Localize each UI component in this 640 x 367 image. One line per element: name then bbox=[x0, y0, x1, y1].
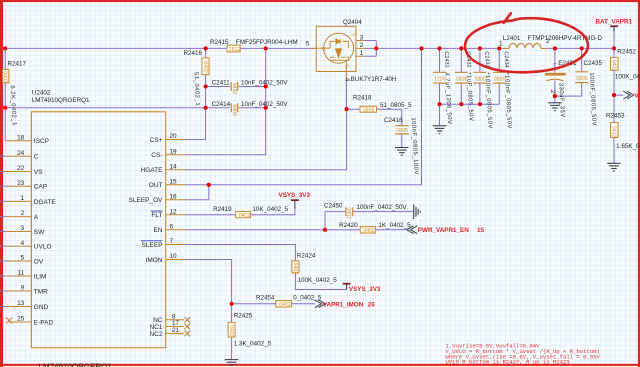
svg-text:9: 9 bbox=[21, 285, 25, 292]
svg-text:OUT: OUT bbox=[149, 182, 163, 189]
svg-text:R2416: R2416 bbox=[184, 50, 203, 57]
resistor R2416 bbox=[202, 58, 209, 75]
power tap VSYS_3V3 (R2424) bbox=[343, 283, 351, 285]
junction C2431 bottom bbox=[437, 102, 441, 106]
junction C2432 bottom bbox=[459, 102, 463, 106]
svg-text:BUK7Y1R7-40H: BUK7Y1R7-40H bbox=[351, 76, 397, 83]
wire R2454 bbox=[232, 303, 315, 305]
svg-text:4: 4 bbox=[21, 240, 25, 247]
ground R2453 bbox=[607, 163, 621, 171]
svg-text:0402: 0402 bbox=[279, 302, 291, 308]
U2402 right pin names bbox=[129, 137, 164, 338]
resistor R2425 bbox=[228, 322, 235, 337]
wire IMON bbox=[185, 260, 231, 304]
capacitor E2401 polarized bbox=[545, 73, 566, 76]
svg-text:2512: 2512 bbox=[229, 47, 241, 53]
svg-text:L2401: L2401 bbox=[503, 35, 521, 42]
resistor R2452 bbox=[611, 57, 619, 70]
svg-text:20: 20 bbox=[170, 133, 178, 140]
junction C2411 left bbox=[204, 84, 208, 88]
IC U2402 body bbox=[31, 112, 165, 348]
svg-text:10K_0402_5: 10K_0402_5 bbox=[252, 206, 288, 213]
wire C2450 branch bbox=[325, 212, 414, 230]
junction R2452/R2453 node bbox=[612, 93, 616, 97]
svg-text:6: 6 bbox=[170, 223, 174, 230]
wire C2432 riser bbox=[460, 48, 462, 104]
resistor R2453 bbox=[611, 123, 619, 138]
junction C2431 top bbox=[437, 46, 441, 50]
svg-text:7: 7 bbox=[170, 238, 174, 245]
transistor Q2404 body bbox=[316, 26, 356, 71]
svg-text:1.3K_0402_5: 1.3K_0402_5 bbox=[234, 340, 272, 347]
svg-text:R2454: R2454 bbox=[256, 295, 275, 302]
junction Q2404 gate bbox=[345, 107, 349, 111]
svg-text:BAT_VAPR1: BAT_VAPR1 bbox=[596, 18, 633, 25]
svg-text:R2418: R2418 bbox=[353, 94, 372, 101]
resistor R2424 bbox=[292, 261, 299, 273]
svg-text:0805: 0805 bbox=[576, 76, 588, 82]
Q2404 internals bbox=[316, 47, 330, 49]
svg-text:DGATE: DGATE bbox=[34, 199, 57, 206]
svg-text:2: 2 bbox=[549, 90, 556, 94]
junction CS- tap bbox=[264, 46, 268, 50]
svg-text:10: 10 bbox=[170, 253, 178, 260]
svg-text:0402: 0402 bbox=[202, 61, 208, 73]
svg-text:LM74910QRGERQ1: LM74910QRGERQ1 bbox=[32, 97, 90, 104]
off-page VAPR1 sense bbox=[623, 91, 633, 99]
svg-text:GND: GND bbox=[34, 304, 49, 311]
svg-text:ILIM: ILIM bbox=[34, 273, 47, 280]
ground C2450 sideways bbox=[414, 204, 421, 219]
wire CS- bbox=[185, 48, 265, 154]
junction EN/C2450 bbox=[323, 228, 327, 232]
junction R2416 top bbox=[204, 46, 208, 50]
U2402 pin stubs left bbox=[6, 140, 186, 334]
svg-text:0402: 0402 bbox=[610, 126, 616, 138]
svg-text:3: 3 bbox=[360, 34, 364, 41]
svg-text:12: 12 bbox=[170, 208, 178, 215]
resistor R2415 shunt bbox=[227, 45, 240, 52]
svg-text:SLEEP_OV: SLEEP_OV bbox=[129, 197, 164, 204]
svg-text:R2452: R2452 bbox=[617, 49, 636, 56]
svg-text:C2434: C2434 bbox=[503, 51, 510, 68]
svg-text:OV: OV bbox=[34, 258, 44, 265]
svg-text:0402: 0402 bbox=[231, 104, 237, 116]
svg-text:0402: 0402 bbox=[231, 83, 237, 95]
svg-text:0402: 0402 bbox=[228, 325, 234, 337]
junction C2433 top bbox=[478, 46, 482, 50]
off-page VAPR1_IMON bbox=[315, 300, 325, 308]
svg-text:0402: 0402 bbox=[363, 228, 375, 234]
annotation ellipse bbox=[465, 13, 588, 72]
svg-text:1.65K_0402_1: 1.65K_0402_1 bbox=[616, 143, 640, 150]
svg-text:15: 15 bbox=[477, 227, 485, 234]
wire C2435 bbox=[555, 48, 582, 96]
svg-text:D: D bbox=[320, 47, 326, 51]
svg-text:VS: VS bbox=[34, 169, 43, 176]
ground R2425 bbox=[225, 360, 239, 367]
wire Q2404 source pins bbox=[365, 41, 376, 57]
junction C2434 top bbox=[497, 46, 501, 50]
svg-text:0805: 0805 bbox=[396, 128, 408, 134]
wire gate stub bbox=[345, 78, 347, 110]
wire C2431 riser bbox=[439, 48, 441, 104]
svg-text:G: G bbox=[343, 64, 349, 68]
junction C2433 bottom bbox=[478, 102, 482, 106]
svg-text:UVLO: UVLO bbox=[34, 244, 52, 251]
ground cap bank bbox=[433, 126, 447, 134]
wire BAT column bbox=[614, 30, 623, 163]
svg-text:C2414: C2414 bbox=[212, 101, 231, 108]
wire C2414 right bbox=[239, 107, 266, 109]
svg-text:R2417: R2417 bbox=[8, 61, 27, 68]
svg-text:1: 1 bbox=[360, 50, 364, 57]
off-page PWR_VAPR1_EN bbox=[407, 226, 417, 234]
svg-text:SW: SW bbox=[34, 229, 45, 236]
junction C2411 right bbox=[264, 84, 268, 88]
svg-text:1K_0402_5: 1K_0402_5 bbox=[378, 222, 411, 229]
svg-text:CS+: CS+ bbox=[150, 137, 163, 144]
wire node ISCP horizontal bbox=[3, 107, 230, 109]
capacitor C2432 bbox=[455, 72, 468, 83]
svg-text:C: C bbox=[34, 154, 39, 161]
svg-text:IMON: IMON bbox=[146, 257, 163, 264]
junction OUT riser bbox=[419, 46, 423, 50]
power tap VSYS_3V3 (R2419) bbox=[291, 199, 299, 201]
svg-text:51_0805_5: 51_0805_5 bbox=[380, 102, 412, 109]
svg-text:18: 18 bbox=[17, 134, 25, 141]
wire caps ground rail bbox=[440, 104, 500, 126]
svg-text:15: 15 bbox=[170, 178, 178, 185]
svg-text:0402: 0402 bbox=[346, 207, 352, 219]
wire FLT bbox=[185, 208, 295, 215]
ground E2401 bbox=[548, 103, 562, 111]
svg-text:FLT: FLT bbox=[151, 212, 162, 219]
svg-text:R2419: R2419 bbox=[213, 206, 232, 213]
capacitor C2416 bbox=[395, 126, 409, 134]
svg-text:25: 25 bbox=[17, 316, 25, 323]
svg-text:A: A bbox=[34, 214, 39, 221]
wire C2411 bbox=[206, 86, 266, 88]
wire ISCP riser bbox=[4, 108, 6, 141]
svg-text:NC2: NC2 bbox=[149, 331, 162, 338]
svg-text:2: 2 bbox=[21, 210, 25, 217]
capacitor C2450 bbox=[346, 207, 353, 216]
capacitor C2433 bbox=[473, 72, 486, 83]
svg-text:23: 23 bbox=[17, 180, 25, 187]
junction BAT_VAPR1 rail bbox=[612, 46, 616, 50]
junction E2401 bottom bbox=[553, 94, 557, 98]
U2402 right pin numbers bbox=[170, 133, 180, 334]
capacitor C2435 bbox=[575, 72, 588, 83]
svg-text:VAPR1_IMON: VAPR1_IMON bbox=[323, 301, 364, 308]
junction IMON node bbox=[230, 302, 234, 306]
wire E2401 bbox=[554, 48, 556, 102]
svg-text:5: 5 bbox=[21, 255, 25, 262]
svg-text:24: 24 bbox=[17, 150, 25, 157]
capacitor C2411 bbox=[231, 82, 238, 91]
svg-text:R2425: R2425 bbox=[234, 313, 253, 320]
svg-text:0402: 0402 bbox=[2, 71, 8, 83]
wire R2417 vertical bbox=[4, 48, 6, 107]
svg-text:LM74910QRGERQ1: LM74910QRGERQ1 bbox=[39, 363, 113, 367]
capacitor C2431 bbox=[433, 72, 446, 83]
resistor R2419 bbox=[236, 211, 251, 217]
wire OUT bbox=[185, 48, 421, 184]
wire R2418 bbox=[347, 109, 402, 147]
svg-text:100nF_0402_50V: 100nF_0402_50V bbox=[357, 204, 408, 211]
junction C2414 right bbox=[264, 106, 268, 110]
no-connect X marks bbox=[6, 317, 190, 336]
svg-text:100K_0402_5: 100K_0402_5 bbox=[298, 277, 338, 284]
wire CS+ bbox=[185, 48, 205, 139]
svg-text:FTMP1206HPV-4RTMG-D: FTMP1206HPV-4RTMG-D bbox=[528, 35, 603, 42]
svg-text:R2415: R2415 bbox=[210, 39, 229, 46]
svg-text:0402: 0402 bbox=[239, 213, 251, 219]
svg-text:19: 19 bbox=[170, 148, 178, 155]
svg-text:14: 14 bbox=[170, 163, 178, 170]
junction C2435 top bbox=[580, 46, 584, 50]
svg-text:VSYS_3V3: VSYS_3V3 bbox=[279, 192, 311, 199]
junction R2417 bottom bbox=[3, 106, 7, 110]
pin name overlines FLT SLEEP bbox=[141, 211, 162, 241]
svg-text:C2431: C2431 bbox=[443, 51, 450, 68]
U2402 left pin numbers bbox=[17, 134, 25, 322]
wire C2434 riser bbox=[498, 48, 500, 104]
svg-text:100K_0402_1: 100K_0402_1 bbox=[615, 74, 640, 81]
U2402 left pin names bbox=[34, 138, 57, 326]
svg-text:13: 13 bbox=[17, 300, 25, 307]
inductor L2401 bbox=[503, 47, 547, 49]
svg-text:VSYS_3V3: VSYS_3V3 bbox=[349, 286, 381, 293]
svg-text:UVLO R bottom is R2427, R up i: UVLO R bottom is R2427, R up is R2423 bbox=[446, 359, 570, 366]
svg-text:EN: EN bbox=[153, 227, 162, 234]
wire C2433 riser bbox=[479, 48, 481, 104]
svg-text:U2402: U2402 bbox=[32, 90, 51, 97]
svg-text:0402: 0402 bbox=[610, 60, 616, 72]
resistor R2418 bbox=[360, 106, 377, 112]
capacitor C2434 bbox=[493, 72, 506, 83]
resistor R2454 bbox=[276, 301, 292, 307]
svg-text:17: 17 bbox=[172, 320, 180, 327]
svg-text:C2411: C2411 bbox=[212, 79, 231, 86]
capacitor C2414 bbox=[231, 103, 238, 112]
junction C2432 top bbox=[459, 46, 463, 50]
junction R2417 top bbox=[3, 46, 7, 50]
svg-text:C2450: C2450 bbox=[324, 202, 343, 209]
svg-text:CAP: CAP bbox=[34, 184, 47, 191]
wire SLEEP pullup bbox=[185, 245, 346, 290]
svg-text:21: 21 bbox=[172, 327, 180, 334]
svg-text:C2416: C2416 bbox=[384, 117, 403, 124]
wire EN bbox=[185, 229, 406, 231]
svg-text:5: 5 bbox=[306, 41, 310, 48]
resistor R2420 bbox=[360, 227, 375, 233]
svg-text:VAPR1_UV: VAPR1_UV bbox=[635, 92, 640, 99]
svg-text:R2420: R2420 bbox=[339, 222, 358, 229]
wire HGATE bbox=[185, 109, 346, 170]
wire R2425 bbox=[231, 304, 233, 360]
ground C2416 bbox=[395, 148, 409, 156]
svg-text:NC1: NC1 bbox=[149, 324, 162, 331]
svg-text:22: 22 bbox=[17, 165, 25, 172]
svg-text:Q2404: Q2404 bbox=[343, 19, 362, 26]
svg-text:2: 2 bbox=[360, 42, 364, 49]
svg-text:0805: 0805 bbox=[363, 107, 375, 113]
svg-text:16: 16 bbox=[170, 193, 178, 200]
junction Q2404 source bbox=[374, 46, 378, 50]
svg-text:11: 11 bbox=[18, 270, 25, 277]
Q2404 pin stubs bbox=[310, 41, 365, 78]
svg-text:0_0402_5: 0_0402_5 bbox=[293, 295, 322, 302]
wire left pin leads bbox=[0, 156, 6, 306]
svg-text:3: 3 bbox=[21, 225, 25, 232]
svg-text:TMR: TMR bbox=[34, 288, 48, 295]
svg-text:2: 2 bbox=[546, 38, 550, 45]
svg-text:C2435: C2435 bbox=[584, 60, 603, 67]
wire output rail bbox=[376, 47, 614, 49]
svg-text:4: 4 bbox=[343, 78, 350, 82]
wire main input rail bbox=[3, 47, 317, 49]
junction C2414 left bbox=[204, 106, 208, 110]
svg-text:26: 26 bbox=[368, 301, 376, 308]
svg-text:FMF25FPJR004-LHM: FMF25FPJR004-LHM bbox=[236, 39, 298, 46]
junction E2401 top bbox=[553, 46, 557, 50]
svg-text:HGATE: HGATE bbox=[141, 167, 164, 174]
svg-text:CS-: CS- bbox=[151, 152, 162, 159]
svg-text:PWR_VAPR1_EN: PWR_VAPR1_EN bbox=[418, 227, 469, 234]
svg-text:R2424: R2424 bbox=[297, 253, 316, 260]
junction OUT/SLEEP_OV bbox=[207, 183, 211, 187]
wire SLEEP_OV bbox=[185, 185, 209, 200]
svg-text:E-PAD: E-PAD bbox=[34, 319, 54, 326]
svg-text:0402: 0402 bbox=[292, 263, 298, 275]
svg-text:SLEEP: SLEEP bbox=[142, 242, 163, 249]
resistor R2417 bbox=[3, 69, 9, 83]
svg-text:R2453: R2453 bbox=[606, 113, 625, 120]
svg-text:1: 1 bbox=[21, 195, 25, 202]
svg-text:ISCP: ISCP bbox=[34, 138, 49, 145]
